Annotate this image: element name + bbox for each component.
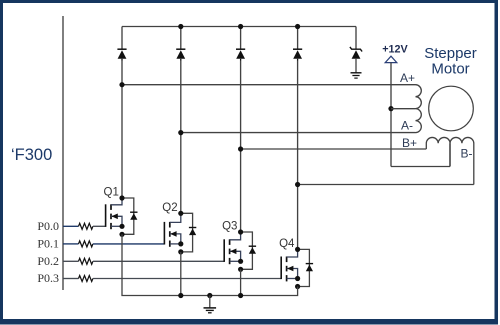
resistor R4 (gate series) (79, 276, 93, 282)
wire: phase A+ (column 1 to winding A) (122, 84, 416, 86)
diode D1 (clamp, column 1) (117, 27, 126, 61)
junction (A- / column 2) (178, 130, 183, 135)
svg-text:Q2: Q2 (162, 202, 177, 214)
svg-text:B+: B+ (402, 136, 417, 150)
wire: phase B- (winding B to column 4) (298, 184, 474, 186)
ground (main) (204, 296, 217, 313)
junction (B+ / column 3) (238, 146, 243, 151)
microcontroller 'F300 boundary line (62, 16, 64, 290)
resistor R3 (gate series) (79, 258, 93, 264)
junction (Q1 source/flyback) (119, 232, 124, 237)
wire: source ground bus (181, 295, 241, 297)
wire: resistor to Q2 gate (93, 243, 164, 245)
junction (Q3 source/flyback) (238, 267, 243, 272)
wire: Q4 source to ground bus (241, 287, 298, 296)
label P0.0 (37, 219, 59, 233)
label A+ (400, 71, 415, 85)
transistor Q4 (N-MOSFET) (281, 249, 297, 281)
transistor Q3 (N-MOSFET) (224, 232, 240, 264)
label B+ (402, 136, 417, 150)
wire: column 2 (diode to Q2 drain) (180, 61, 182, 214)
svg-text:Motor: Motor (431, 61, 469, 78)
junction (B- / column 4) (295, 182, 300, 187)
junction (Q2 drain node) (178, 211, 183, 216)
resistor R2 (gate series) (79, 241, 93, 247)
diode (flyback across Q1) (130, 212, 137, 220)
junction (Q3 source/body) (238, 259, 243, 264)
diode D3 (clamp, column 3) (236, 27, 245, 61)
wire: column 3 (diode to Q3 drain) (240, 61, 242, 233)
junction (Q1 drain node) (119, 195, 124, 200)
wire: column 4 (diode to Q4 drain) (297, 61, 299, 250)
wire: winding A center tap (391, 108, 416, 110)
wire: Q2 source to ground bus (180, 252, 182, 296)
label Q1 (104, 187, 119, 199)
junction (bus / Q2 source) (178, 293, 183, 298)
label P0.3 (37, 271, 59, 285)
wire: phase B+ (column 3 to winding B) (241, 148, 427, 150)
svg-text:Q3: Q3 (222, 221, 237, 233)
wire: Q1 source to ground bus (122, 234, 181, 295)
wire: resistor to Q1 gate (93, 225, 106, 227)
wire: Q4 flyback branch (298, 249, 310, 286)
transistor Q2 (N-MOSFET) (164, 213, 180, 247)
wire: +12V rail (to winding center taps) (391, 63, 450, 167)
junction (+12V / winding A center tap) (388, 106, 393, 111)
wire: phase A- (winding A to column 2) (181, 132, 416, 134)
wire: resistor to Q4 gate (93, 278, 281, 280)
label Q2 (162, 202, 177, 214)
label A- (401, 118, 413, 132)
junction (A+ / column 1) (119, 82, 124, 87)
junction (Q4 source/body) (295, 276, 300, 281)
transistor Q1 (N-MOSFET) (106, 198, 122, 229)
junction (bus / ground tap) (207, 293, 212, 298)
label P0.2 (37, 254, 59, 268)
label Q3 (222, 221, 237, 233)
wire: P0.2 to gate resistor (63, 260, 79, 262)
diode (flyback across Q3) (249, 246, 256, 254)
junction (bus / D3 column) (238, 24, 243, 29)
wire: winding B center tap (449, 143, 451, 166)
junction (bus / D4 column) (295, 24, 300, 29)
junction (Q2 source/body) (178, 241, 183, 246)
junction (Q4 drain node) (295, 247, 300, 252)
svg-text:Q1: Q1 (104, 187, 119, 199)
inductor: motor winding A (416, 85, 422, 133)
svg-text:A+: A+ (400, 71, 415, 85)
junction (Q3 drain node) (238, 229, 243, 234)
junction (bus / Q3 source) (238, 293, 243, 298)
svg-text:P0.0: P0.0 (37, 219, 59, 233)
diode D4 (clamp, column 4) (293, 27, 302, 61)
wire: resistor to Q3 gate (93, 260, 224, 262)
svg-text:Q4: Q4 (279, 238, 295, 250)
wire: Q2 flyback branch (181, 213, 193, 252)
zener diode D5 (clamp rail to ground) (350, 27, 362, 73)
label Stepper Motor (424, 45, 477, 78)
svg-text:P0.1: P0.1 (37, 237, 59, 251)
svg-text:A-: A- (401, 118, 413, 132)
wire: column 1 (diode to Q1 drain) (121, 61, 123, 199)
resistor R1 (gate series) (79, 223, 93, 229)
wire: Q3 flyback branch (241, 232, 253, 269)
svg-text:B-: B- (461, 147, 473, 161)
wire: P0.0 to gate resistor (63, 225, 79, 227)
junction (Q4 source/flyback) (295, 284, 300, 289)
wire: P0.3 to gate resistor (63, 278, 79, 280)
svg-text:+12V: +12V (382, 44, 408, 56)
wire: Q3 source to ground bus (240, 269, 242, 295)
junction (Q2 source/flyback) (178, 249, 183, 254)
wire: top clamp bus (122, 26, 356, 28)
svg-text:P0.2: P0.2 (37, 254, 59, 268)
diode D2 (clamp, column 2) (176, 27, 185, 61)
label P0.1 (37, 237, 59, 251)
ground (zener) (351, 73, 362, 78)
inductor: motor winding B (426, 137, 474, 184)
diode (flyback across Q2) (189, 228, 196, 236)
label B- (461, 147, 473, 161)
wire: Q1 flyback branch (122, 198, 134, 234)
svg-text:‘F300: ‘F300 (11, 146, 52, 164)
label Q4 (279, 238, 295, 250)
svg-text:P0.3: P0.3 (37, 271, 59, 285)
label 'F300 (11, 146, 52, 164)
+12V supply symbol (382, 44, 408, 63)
diode (flyback across Q4) (306, 264, 313, 272)
svg-text:Stepper: Stepper (424, 45, 477, 62)
junction (Q1 source/body) (119, 224, 124, 229)
junction (bus / D2 column) (178, 24, 183, 29)
stepper motor body (429, 86, 474, 131)
wire: P0.1 to gate resistor (63, 243, 79, 245)
